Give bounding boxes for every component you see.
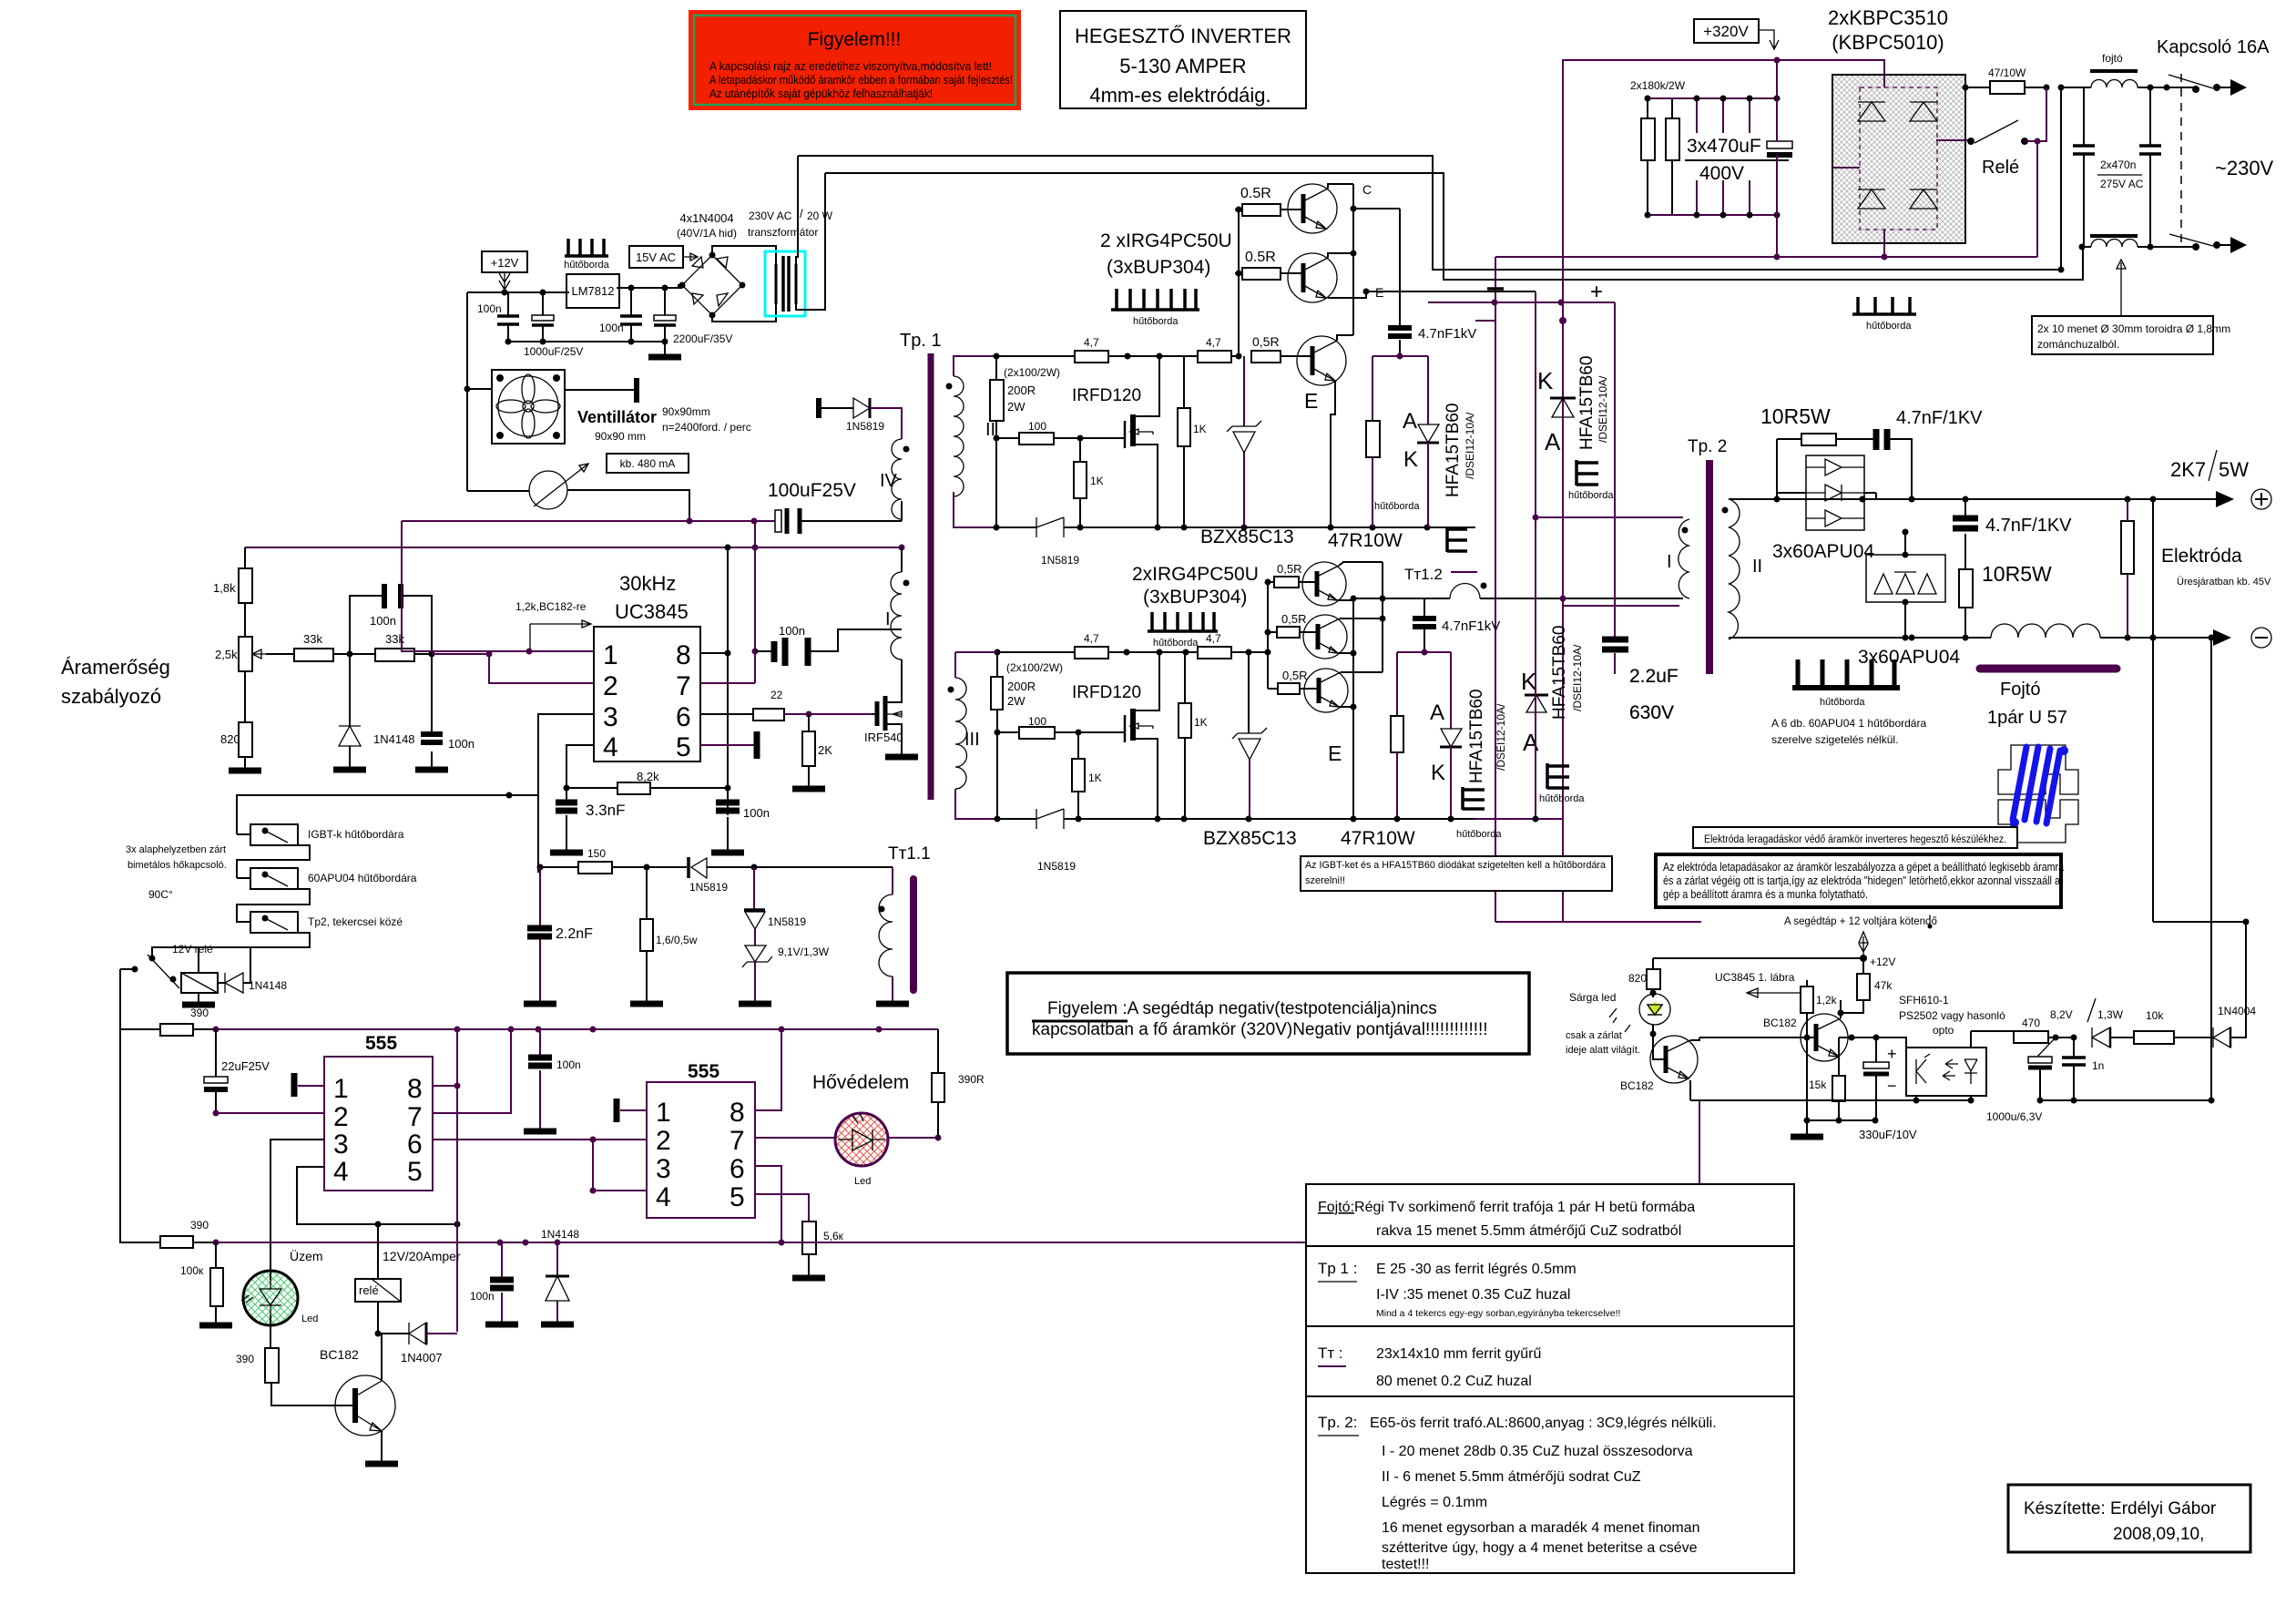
svg-text:HEGESZTŐ INVERTER: HEGESZTŐ INVERTER	[1075, 25, 1291, 47]
capacitor 2200uF/35V	[654, 288, 732, 355]
svg-text:4: 4	[603, 732, 618, 762]
svg-text:80 menet 0.2 CuZ huzal: 80 menet 0.2 CuZ huzal	[1376, 1374, 1532, 1389]
heatsink bridge	[1852, 297, 1916, 332]
winding Tt1.1	[876, 867, 909, 1004]
capacitor 100uF25V	[402, 508, 902, 534]
svg-text:/DSEI12-10A/: /DSEI12-10A/	[1597, 375, 1609, 443]
svg-text:200R: 200R	[1007, 680, 1036, 693]
heatsink 60APU04	[1771, 659, 1926, 746]
svg-text:3x alaphelyzetben zárt: 3x alaphelyzetben zárt	[126, 844, 226, 855]
diode 1N5819 aux	[819, 398, 902, 439]
trimmer contact	[2037, 1037, 2056, 1057]
capacitor 4.7nF1kV lower	[1413, 598, 1500, 652]
svg-text:I-IV :35 menet 0.35 CuZ huzal: I-IV :35 menet 0.35 CuZ huzal	[1376, 1287, 1570, 1303]
thermal switch 3	[250, 912, 403, 933]
diode 1N5819 vertical	[744, 867, 806, 929]
svg-text:1K: 1K	[1194, 716, 1208, 729]
note box Elektróda leragadáskor red	[1693, 827, 2017, 848]
svg-text:E65-ös ferrit trafó.AL:8600,an: E65-ös ferrit trafó.AL:8600,anyag : 3C9,…	[1370, 1416, 1717, 1431]
svg-text:1N4004: 1N4004	[2218, 1005, 2256, 1017]
wire pin5 555b	[755, 1194, 809, 1221]
svg-text:szerelve szigetelés nélkül.: szerelve szigetelés nélkül.	[1771, 733, 1898, 746]
capacitor 100n	[477, 292, 519, 342]
svg-text:3: 3	[333, 1129, 349, 1160]
resistor 200R 2W	[990, 380, 1004, 421]
capacitor 330uF/10V	[1859, 1037, 1917, 1141]
label 15V AC box	[629, 246, 698, 268]
svg-text:400V: 400V	[1699, 163, 1744, 184]
svg-text:555: 555	[365, 1033, 397, 1054]
svg-text:zománchuzalból.: zománchuzalból.	[2037, 338, 2119, 351]
svg-text:47R10W: 47R10W	[1341, 828, 1415, 849]
svg-text:15k: 15k	[1809, 1078, 1827, 1091]
svg-text:Kapcsoló 16A: Kapcsoló 16A	[2157, 37, 2270, 57]
svg-text:1N5819: 1N5819	[1037, 860, 1076, 873]
svg-text:0,5R: 0,5R	[1277, 562, 1301, 576]
svg-text:−: −	[1887, 1077, 1897, 1095]
svg-text:100: 100	[1028, 715, 1046, 728]
zener 9,1V/1,3W	[739, 929, 830, 1004]
svg-text:2.2uF: 2.2uF	[1629, 666, 1679, 687]
svg-text:BC182: BC182	[1620, 1079, 1654, 1092]
wire +12 node opto	[1859, 932, 1868, 958]
svg-text:0.5R: 0.5R	[1245, 250, 1276, 265]
svg-text:2x 10 menet Ø 30mm toroidra Ø: 2x 10 menet Ø 30mm toroidra Ø 1,8mm	[2037, 322, 2230, 335]
svg-text:(2x100/2W): (2x100/2W)	[1006, 661, 1063, 674]
svg-text:2K: 2K	[818, 743, 832, 757]
svg-text:3x470uF: 3x470uF	[1687, 136, 1761, 157]
wire purple row 391	[1372, 356, 1428, 424]
wire pin7 555a	[433, 1029, 511, 1113]
svg-text:K: K	[1403, 447, 1418, 472]
svg-text:100n: 100n	[779, 624, 805, 638]
capacitor 4.7nF/1KV top	[1876, 408, 1983, 499]
svg-text:6: 6	[730, 1154, 745, 1184]
svg-text:47/10W: 47/10W	[1988, 66, 2026, 79]
resistor 180k a	[1641, 118, 1655, 160]
wire emitter row	[1839, 1037, 1852, 1067]
wire purple row 332	[1428, 302, 1615, 303]
wire pin8 555a	[433, 1085, 457, 1087]
svg-text:90x90 mm: 90x90 mm	[595, 430, 646, 443]
note box letapadás	[1656, 854, 2065, 907]
svg-text:10R5W: 10R5W	[1982, 562, 2052, 586]
svg-text:4x1N4004: 4x1N4004	[679, 211, 733, 225]
svg-text:(40V/1A hid): (40V/1A hid)	[677, 227, 737, 240]
svg-text:gép a beállított áramra és a m: gép a beállított áramra és a munka folyt…	[1663, 887, 1868, 901]
svg-text:2200uF/35V: 2200uF/35V	[673, 332, 732, 345]
transistor Q6	[1300, 669, 1383, 765]
resistor 1K right	[1178, 408, 1190, 446]
svg-text:275V AC: 275V AC	[2100, 178, 2144, 190]
wire thermal chain	[199, 795, 509, 973]
svg-text:HFA15TB60: HFA15TB60	[1467, 690, 1486, 784]
diode BL	[1858, 189, 1885, 209]
svg-text:Led: Led	[301, 1313, 318, 1324]
svg-text:Tт1.2: Tт1.2	[1404, 566, 1443, 583]
resistor 180k b	[1666, 118, 1679, 160]
svg-text:UC3845: UC3845	[615, 600, 689, 623]
note box toroid	[2032, 260, 2230, 354]
wire x502 vertical	[456, 1029, 458, 1332]
svg-text:4: 4	[333, 1157, 349, 1187]
svg-text:12V relé: 12V relé	[172, 943, 213, 956]
svg-text:1N4148: 1N4148	[373, 732, 415, 746]
svg-text:2: 2	[656, 1126, 671, 1156]
svg-text:A 6 db. 60APU04 1 hűtőbordára: A 6 db. 60APU04 1 hűtőbordára	[1771, 717, 1926, 730]
transformer Tp1 core	[928, 353, 934, 800]
winding Tp2-I	[1667, 519, 1689, 598]
svg-text:1N5819: 1N5819	[1041, 554, 1079, 567]
svg-text:10R5W: 10R5W	[1760, 404, 1831, 428]
svg-text:I: I	[1667, 552, 1672, 572]
svg-text:8: 8	[676, 640, 691, 670]
svg-text:A segédtáp + 12 voltjára köten: A segédtáp + 12 voltjára kötendő	[1784, 916, 1937, 927]
thermal switch 1	[250, 824, 404, 845]
wire out bottom	[1729, 637, 1991, 639]
svg-text:200R: 200R	[1007, 383, 1036, 397]
svg-text:7: 7	[407, 1102, 423, 1132]
svg-text:1n: 1n	[2092, 1059, 2104, 1072]
svg-text:1pár U 57: 1pár U 57	[1987, 708, 2067, 728]
svg-text:Tp 1 :: Tp 1 :	[1318, 1260, 1357, 1277]
wire E node	[1363, 289, 1370, 295]
arrow from +12V down	[499, 272, 510, 290]
capacitor 100n feedback	[350, 584, 432, 654]
svg-text:3: 3	[603, 702, 618, 732]
winding IV	[880, 439, 910, 521]
capacitor 2.2uF 630V	[1602, 302, 1679, 723]
minus terminal	[2251, 628, 2271, 648]
svg-text:Ventillátor: Ventillátor	[577, 408, 657, 426]
wire pin3 555a	[270, 1140, 324, 1272]
svg-text:n=2400ford. / perc: n=2400ford. / perc	[662, 421, 751, 434]
diode HFA15TB60 lower-right	[1521, 626, 1585, 805]
wire pin3	[538, 714, 594, 873]
wire row601	[245, 547, 902, 548]
svg-text:2W: 2W	[1007, 400, 1026, 414]
svg-text:1,3W: 1,3W	[2097, 1008, 2124, 1021]
wire pin1	[402, 521, 594, 651]
resistor 1K gate lower	[1072, 759, 1085, 792]
capacitor 2x470n a	[2073, 87, 2095, 247]
svg-text:1N5819: 1N5819	[846, 420, 884, 433]
svg-text:szétteritve úgy, hogy a 4 me: szétteritve úgy, hogy a 4 menet beterits…	[1382, 1540, 1698, 1556]
wire purple row 716	[1397, 652, 1451, 729]
svg-text:30kHz: 30kHz	[619, 572, 676, 595]
svg-text:7: 7	[730, 1126, 745, 1156]
svg-text:100: 100	[1028, 420, 1046, 433]
ground pot	[229, 768, 261, 774]
svg-text:390: 390	[236, 1353, 254, 1365]
svg-text:390R: 390R	[958, 1073, 985, 1086]
svg-text:1N4007: 1N4007	[401, 1351, 443, 1365]
wire BC collector to base2	[1699, 1037, 1765, 1038]
svg-text:1,8k: 1,8k	[213, 581, 236, 595]
capacitor 100n mid	[524, 1029, 581, 1131]
svg-text:Tp2, tekercsei közé: Tp2, tekercsei közé	[308, 915, 403, 928]
capacitor 1n	[2062, 1037, 2104, 1104]
svg-text:II: II	[1752, 557, 1762, 577]
wire pin8 555b	[755, 1029, 781, 1110]
svg-text:3.3nF: 3.3nF	[586, 802, 625, 819]
mosfet IRF540	[864, 681, 918, 757]
svg-text:1000u/6,3V: 1000u/6,3V	[1986, 1110, 2042, 1123]
svg-text:bimetálos hőkapcsoló.: bimetálos hőkapcsoló.	[128, 860, 227, 871]
heatsink IGBT upper	[1111, 289, 1199, 327]
svg-text:2008,09,10,: 2008,09,10,	[2113, 1525, 2204, 1544]
zener BZX85C13 upper	[1227, 356, 1261, 527]
resistor 10R5W bottom	[1959, 569, 1973, 608]
winding II	[946, 376, 996, 496]
svg-text:8,2k: 8,2k	[637, 770, 659, 783]
gate rail lower	[997, 651, 1268, 653]
svg-text:A: A	[1523, 729, 1539, 756]
svg-text:150: 150	[587, 847, 606, 860]
heatsink PSU	[564, 239, 609, 271]
bridge module hatched box	[1832, 75, 1965, 243]
transformer Tt1.1 core	[910, 879, 917, 990]
svg-text:5-130 AMPER: 5-130 AMPER	[1119, 55, 1246, 77]
svg-text:8: 8	[407, 1074, 423, 1104]
mosfet IRFD120 lower	[1124, 715, 1127, 742]
svg-text:Áramerőség: Áramerőség	[61, 656, 170, 679]
capacitor 1000u/6,3V	[1986, 1057, 2052, 1123]
plus terminal	[2251, 489, 2271, 509]
svg-text:9,1V/1,3W: 9,1V/1,3W	[778, 945, 830, 958]
svg-text:0,5R: 0,5R	[1252, 334, 1280, 349]
svg-text:/DSEI12-10A/: /DSEI12-10A/	[1571, 644, 1584, 711]
inductor Tt1.2	[1450, 584, 1480, 598]
svg-text:1N5819: 1N5819	[768, 915, 806, 928]
svg-text:II - 6 menet 5.5mm átmérőj: II - 6 menet 5.5mm átmérőjü sodrat CuZ	[1382, 1469, 1641, 1485]
svg-text:4.7nF1kV: 4.7nF1kV	[1442, 618, 1500, 634]
svg-text:3: 3	[656, 1154, 671, 1184]
svg-text:Légrés = 0.1mm: Légrés = 0.1mm	[1382, 1495, 1487, 1510]
svg-text:10k: 10k	[2146, 1009, 2164, 1022]
svg-text:470: 470	[2022, 1017, 2040, 1029]
wire pin2 555a	[216, 1112, 324, 1114]
svg-text:Figyelem!!!: Figyelem!!!	[808, 29, 902, 50]
diode 1N4148 rail	[541, 1228, 579, 1324]
wire pin7	[700, 682, 755, 684]
capacitor 1000uF/25V	[524, 292, 583, 358]
transistor Q5	[1300, 615, 1383, 659]
svg-text:5W: 5W	[2219, 458, 2249, 481]
diode TR	[1910, 102, 1937, 121]
svg-text:1N4148: 1N4148	[541, 1228, 579, 1241]
wire pin6 555b	[755, 1166, 781, 1242]
svg-text:opto: opto	[1933, 1024, 1954, 1037]
svg-text:hűtőborda: hűtőborda	[564, 260, 609, 271]
svg-text:+12V: +12V	[491, 256, 519, 270]
resistor 47/10W	[1963, 66, 2065, 141]
wire +320V rail	[1562, 60, 1884, 75]
resistor 1,6/0,5w	[630, 867, 698, 1004]
capacitor 100n pin7	[752, 624, 903, 666]
wire bottom rail PSU	[508, 341, 665, 342]
svg-text:(2x100/2W): (2x100/2W)	[1004, 366, 1060, 379]
svg-text:HFA15TB60: HFA15TB60	[1550, 626, 1569, 721]
svg-text:5,6к: 5,6к	[823, 1230, 844, 1242]
svg-text:47k: 47k	[1874, 979, 1893, 992]
wire plus feed to Tp2	[1563, 605, 1679, 607]
svg-text:Tт :: Tт :	[1318, 1344, 1343, 1362]
wire minus rail vertical	[1495, 301, 1496, 922]
transistor Q1	[1281, 184, 1353, 233]
svg-text:Üzem: Üzem	[290, 1248, 323, 1263]
capacitor 100n #2	[599, 288, 642, 342]
diode 1N5819 row	[689, 857, 728, 894]
svg-text:22: 22	[770, 689, 783, 701]
svg-text:+: +	[1887, 1045, 1897, 1063]
wire pin4 555b	[593, 1140, 647, 1191]
author box	[2008, 1485, 2250, 1552]
svg-text:2,5k: 2,5k	[215, 648, 238, 661]
svg-text:Elektróda: Elektróda	[2161, 546, 2242, 567]
svg-text:4,7: 4,7	[1206, 336, 1221, 349]
svg-text:~230V: ~230V	[2215, 157, 2274, 179]
resistor 47R10W upper	[1366, 421, 1380, 457]
resistor 1K gate low	[1074, 462, 1087, 498]
capacitor 2.2nF	[524, 867, 593, 1004]
svg-text:5: 5	[730, 1182, 745, 1212]
svg-text:4,7: 4,7	[1206, 632, 1221, 645]
svg-text:szabályozó: szabályozó	[61, 685, 161, 708]
wire output to opto loop	[2209, 1098, 2215, 1104]
svg-text:4.7nF/1KV: 4.7nF/1KV	[1985, 516, 2072, 536]
zener 8,2V/1,3W	[2050, 998, 2134, 1048]
resistor 5,6k	[802, 1221, 816, 1254]
svg-text:IV: IV	[880, 471, 898, 491]
svg-text:7: 7	[676, 671, 691, 701]
capacitor 100n pin8	[711, 802, 770, 853]
svg-text:fojtó: fojtó	[2102, 52, 2123, 65]
svg-text:4,7: 4,7	[1084, 632, 1099, 645]
choke core U pair with blue winding	[1998, 745, 2078, 843]
svg-text:Elektróda leragadáskor védő ár: Elektróda leragadáskor védő áramkör inve…	[1704, 834, 2006, 845]
svg-text:2.2nF: 2.2nF	[556, 926, 593, 942]
svg-text:23x14x10 mm ferrit gyűrű: 23x14x10 mm ferrit gyűrű	[1376, 1346, 1542, 1362]
svg-text:C: C	[1362, 182, 1372, 197]
svg-text:330uF/10V: 330uF/10V	[1859, 1128, 1917, 1141]
capacitor 2x470n b	[2097, 87, 2161, 247]
title box	[1060, 11, 1306, 108]
svg-text:III: III	[964, 730, 980, 750]
wires pot column	[244, 547, 246, 769]
ammeter kb 480 mA	[467, 454, 689, 521]
svg-text:4mm-es elektródáig.: 4mm-es elektródáig.	[1089, 84, 1270, 107]
svg-text:0.5R: 0.5R	[1240, 186, 1271, 201]
svg-text:90C°: 90C°	[148, 888, 173, 901]
diode block 3x60APU04 bottom	[1858, 529, 1960, 669]
svg-text:BC182: BC182	[320, 1347, 359, 1362]
svg-text:/DSEI12-10A/: /DSEI12-10A/	[1464, 412, 1476, 479]
svg-text:100n: 100n	[599, 322, 624, 334]
resistor 2K	[802, 731, 815, 766]
svg-text:LM7812: LM7812	[572, 284, 615, 298]
svg-text:90x90mm: 90x90mm	[662, 405, 710, 418]
transistor Q2	[1281, 253, 1366, 302]
wire AC bus lower	[825, 173, 2083, 280]
transistor Q3	[1281, 335, 1353, 527]
transformer Tp2 core	[1706, 460, 1713, 674]
svg-text:6: 6	[676, 702, 691, 732]
wire emitter bus lower	[1352, 598, 1354, 819]
wire phase column to rail	[1535, 517, 1536, 819]
svg-text:100n: 100n	[448, 737, 475, 751]
relay coil 12V	[181, 973, 218, 1005]
svg-text:(KBPC5010): (KBPC5010)	[1832, 31, 1944, 54]
svg-text:5: 5	[407, 1157, 423, 1187]
capacitor 3.3nF	[550, 788, 625, 853]
svg-text:1,2k,BC182-re: 1,2k,BC182-re	[515, 600, 587, 613]
svg-text:2xIRG4PC50U: 2xIRG4PC50U	[1132, 564, 1259, 585]
svg-text:4: 4	[656, 1182, 671, 1212]
node row 1139 to opto	[1852, 1037, 1906, 1048]
svg-text:Fojtó:Régi Tv sorkimenő ferrit: Fojtó:Régi Tv sorkimenő ferrit trafója 1…	[1318, 1200, 1695, 1215]
svg-text:820: 820	[1628, 972, 1647, 985]
svg-text:A: A	[1403, 409, 1417, 434]
wire rail 1364	[216, 1242, 801, 1243]
svg-text:2 xIRG4PC50U: 2 xIRG4PC50U	[1100, 230, 1232, 251]
svg-text:1K: 1K	[1090, 475, 1104, 487]
svg-text:Tт1.1: Tт1.1	[888, 844, 931, 864]
inductor fojto out	[1991, 624, 2100, 638]
svg-text:Tp. 2:: Tp. 2:	[1318, 1414, 1357, 1431]
svg-text:2x470n: 2x470n	[2100, 158, 2136, 171]
svg-text:Az elektróda letapadásakor az: Az elektróda letapadásakor az áramkör le…	[1663, 860, 2065, 874]
svg-text:rakva 15 menet 5.5mm átmérő: rakva 15 menet 5.5mm átmérőjű CuZ sodrat…	[1376, 1223, 1681, 1239]
diode 1N5819 lower rail2	[1036, 809, 1064, 829]
svg-text:100uF25V: 100uF25V	[768, 480, 856, 501]
svg-text:hűtőborda: hűtőborda	[1374, 501, 1420, 512]
optocoupler box	[1899, 994, 2005, 1104]
svg-text:Hővédelem: Hővédelem	[812, 1072, 909, 1093]
svg-text:+12V: +12V	[1870, 956, 1895, 968]
note box Figyelem segédtáp	[1007, 973, 1529, 1054]
svg-text:szerelni!!: szerelni!!	[1305, 875, 1345, 886]
fojto choke bottom	[2079, 236, 2197, 250]
svg-text:kapcsolatban a fő áramkör (320: kapcsolatban a fő áramkör (320V)Negativ …	[1032, 1020, 1488, 1039]
svg-text:E 25 -30 as ferrit légrés 0.5: E 25 -30 as ferrit légrés 0.5mm	[1376, 1262, 1577, 1277]
capacitor bank 3x470uF 400V	[1645, 60, 1793, 257]
capacitor 4.7nF1kV upper	[1388, 209, 1476, 360]
wire minus bus joins igbt rails	[1475, 321, 1701, 922]
svg-text:100n: 100n	[556, 1058, 581, 1071]
svg-text:390: 390	[190, 1219, 209, 1232]
svg-text:HFA15TB60: HFA15TB60	[1577, 356, 1597, 451]
svg-text:SFH610-1: SFH610-1	[1899, 994, 1949, 1007]
svg-text:5: 5	[676, 732, 691, 762]
wire bridge bottom to left bus	[1495, 141, 2037, 301]
winding III	[948, 678, 980, 789]
svg-text:Figyelem :A segédtáp negativ(t: Figyelem :A segédtáp negativ(testpotenci…	[1047, 999, 1437, 1018]
svg-text:8: 8	[730, 1098, 745, 1128]
svg-text:4,7: 4,7	[1084, 336, 1099, 349]
switch contact	[120, 947, 199, 1029]
svg-text:hűtőborda: hűtőborda	[1456, 829, 1502, 840]
svg-text:Led: Led	[854, 1176, 871, 1187]
svg-text:A kapcsolási rajz az eredetihe: A kapcsolási rajz az eredetihez viszonyí…	[709, 59, 992, 73]
svg-text:hűtőborda: hűtőborda	[1153, 638, 1199, 649]
svg-text:47R10W: 47R10W	[1328, 530, 1403, 551]
svg-text:UC3845 1. lábra: UC3845 1. lábra	[1715, 971, 1795, 984]
svg-text:4.7nF1kV: 4.7nF1kV	[1418, 326, 1476, 342]
svg-text:390: 390	[190, 1007, 209, 1019]
transistor BC182 drv	[1620, 1034, 1699, 1100]
resistor 200R 2W lower	[991, 677, 1003, 710]
